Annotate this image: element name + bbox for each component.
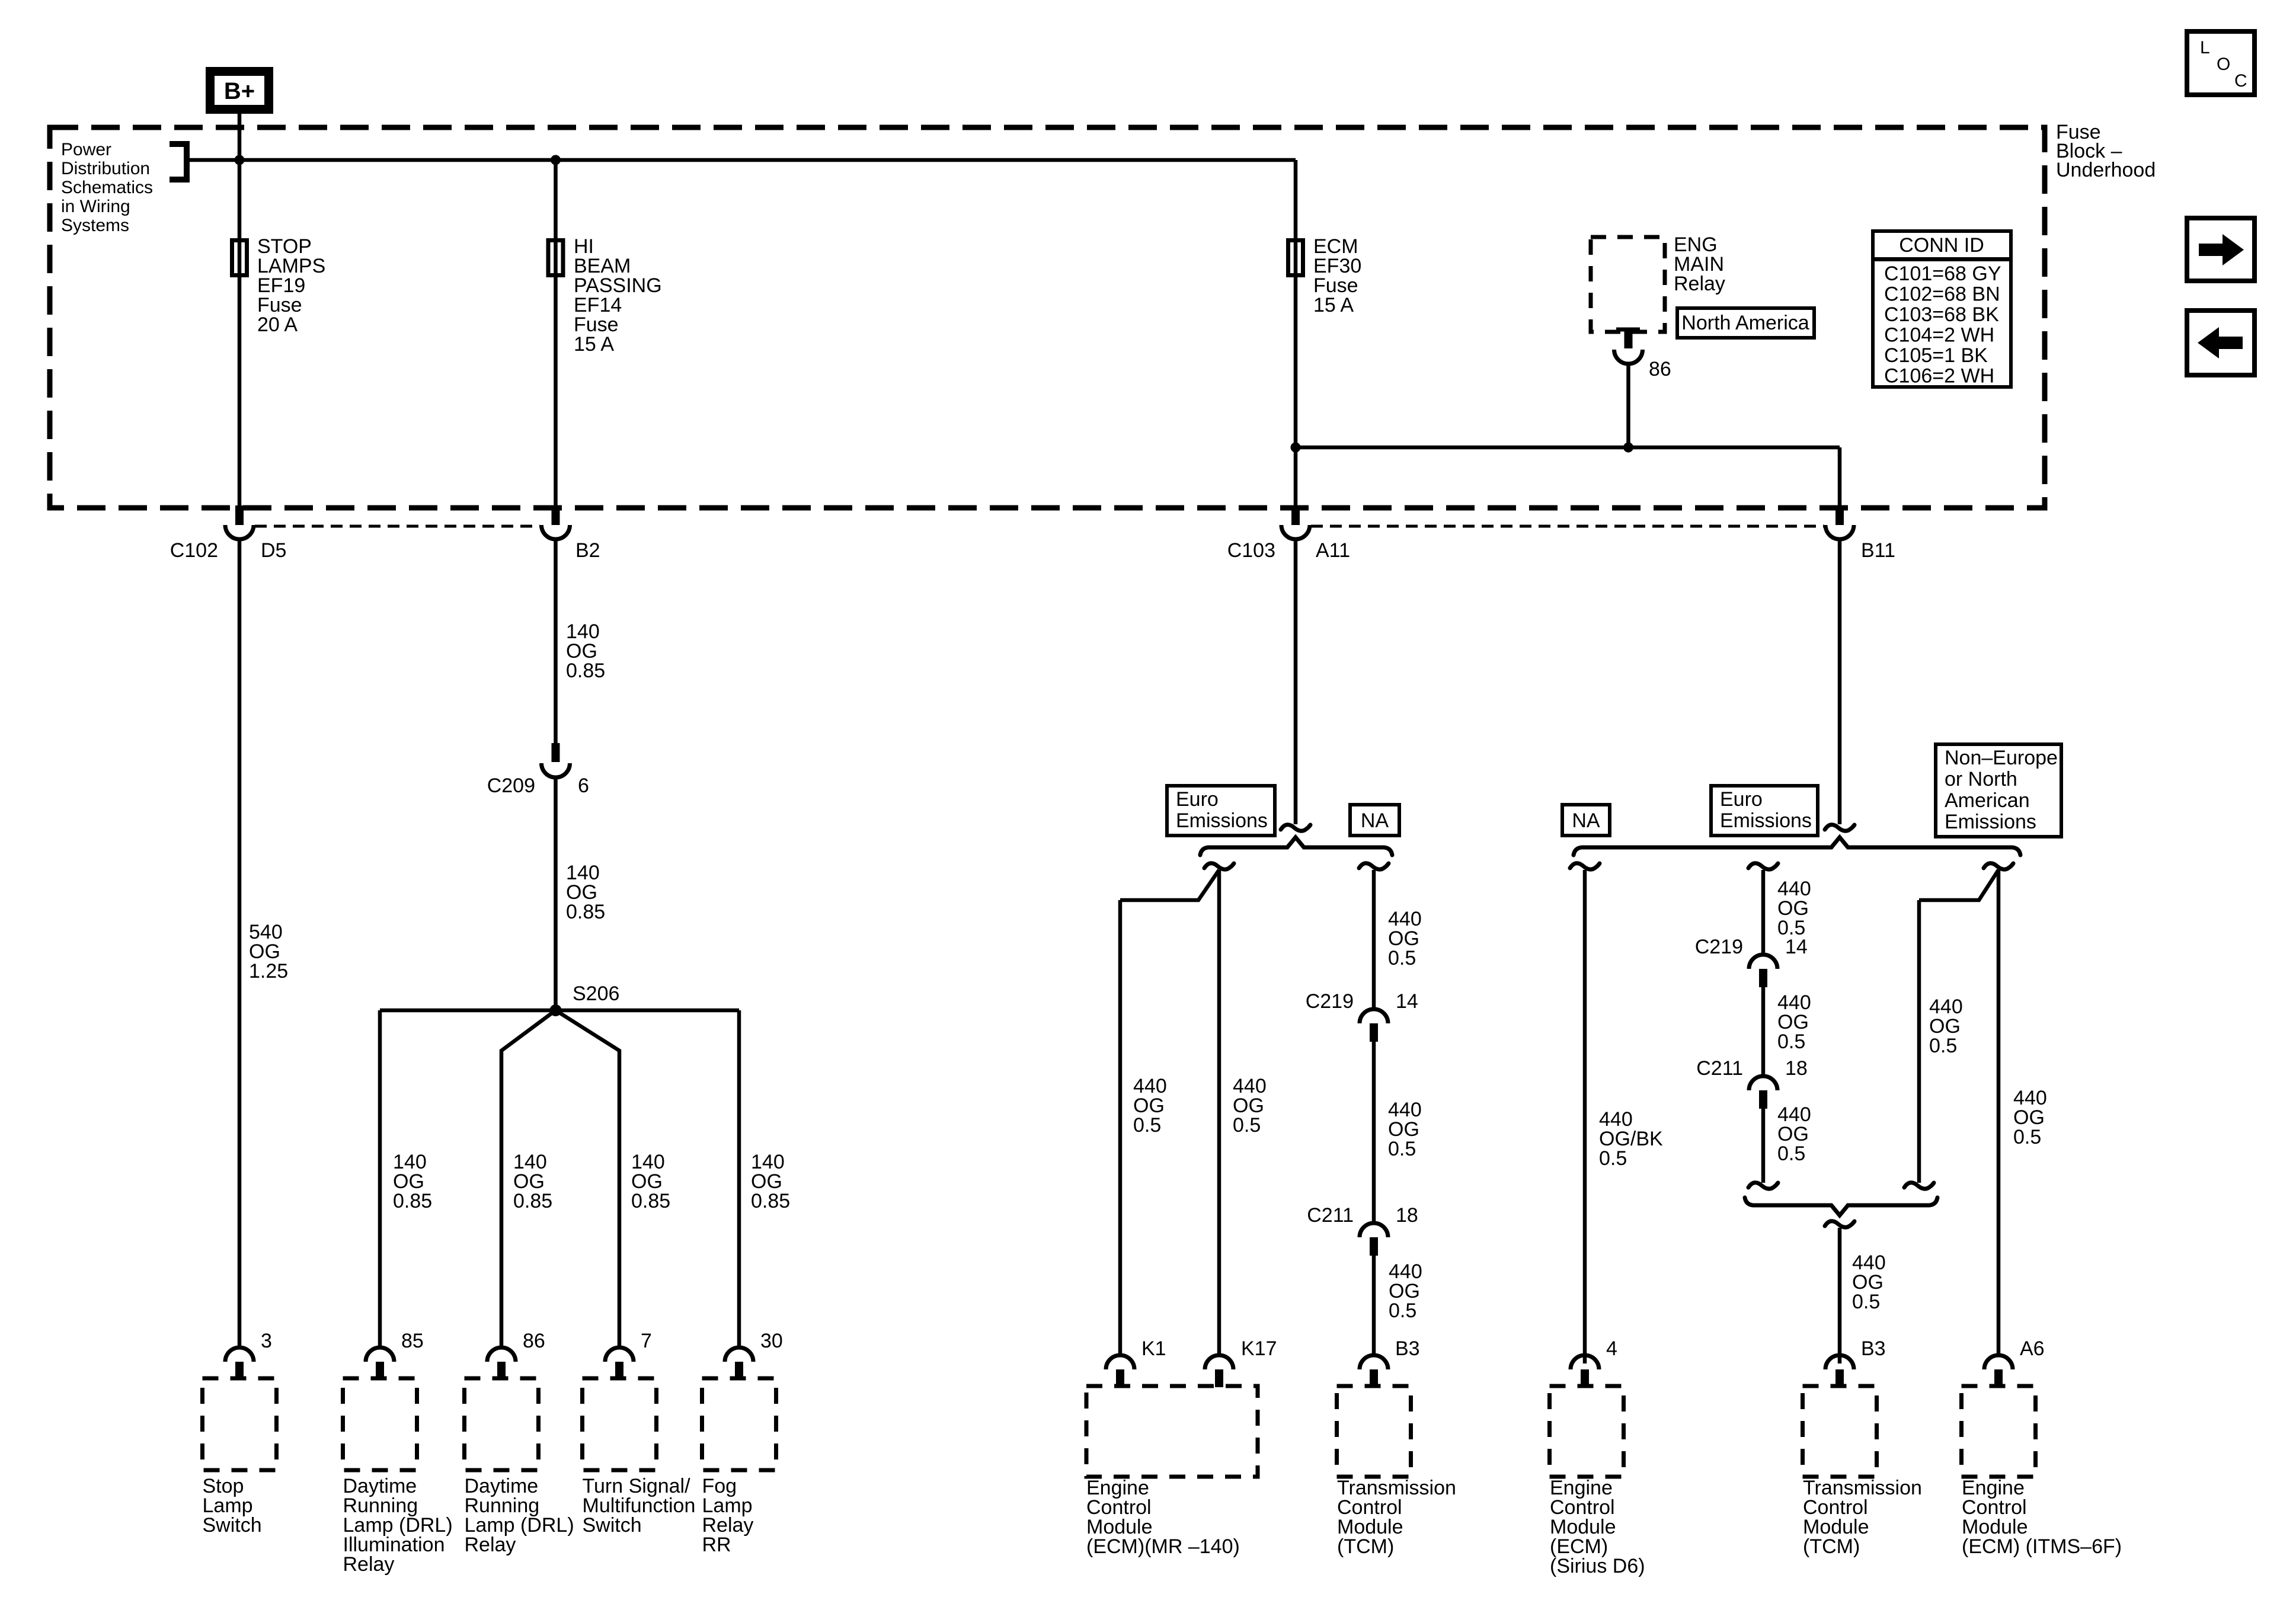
- connector pin 4 at ECM Sirius: [1571, 1355, 1599, 1387]
- label ECM MR-140: [1086, 1477, 1240, 1558]
- connector C219 pin 14 left: [1360, 1009, 1388, 1042]
- svg-text:6: 6: [578, 774, 589, 797]
- brace grouping Euro/NA at A11: [1200, 837, 1392, 855]
- svg-text:0.85: 0.85: [566, 901, 605, 923]
- svg-text:NA: NA: [1361, 809, 1389, 832]
- fuse EF30 ECM 15A: [1288, 235, 1362, 316]
- svg-text:C209: C209: [487, 774, 535, 797]
- svg-text:1.25: 1.25: [249, 960, 288, 982]
- svg-text:C211: C211: [1696, 1057, 1743, 1080]
- svg-text:C103: C103: [1227, 539, 1275, 562]
- label wire 140 OG 0.85 branch 4: [751, 1151, 790, 1212]
- relay ENG MAIN dashed box: [1591, 237, 1665, 332]
- wire branch to turn signal switch: [556, 1010, 620, 1348]
- label wire 140 OG 0.85 upper: [566, 620, 605, 682]
- wire C211 right down: [1761, 1109, 1766, 1183]
- label C102 D5: [170, 539, 287, 562]
- label wire 140 OG 0.85 lower: [566, 862, 605, 923]
- label Fuse Block - Underhood: [2056, 121, 2156, 181]
- label box North America: [1677, 308, 1814, 338]
- wire C211 to TCM B3: [1372, 1256, 1376, 1356]
- svg-text:Switch: Switch: [583, 1514, 642, 1537]
- label C219 14: [1306, 990, 1418, 1013]
- svg-text:American: American: [1945, 789, 2030, 812]
- svg-text:0.5: 0.5: [1388, 947, 1416, 969]
- module box transmission control module TCM right: [1803, 1386, 1877, 1477]
- svg-text:Non–Europe: Non–Europe: [1945, 747, 2058, 769]
- label C219 14 right: [1695, 936, 1808, 958]
- wire K1 down: [1118, 900, 1123, 1356]
- svg-text:4: 4: [1606, 1337, 1617, 1360]
- module box engine control module ECM Sirius D6: [1550, 1386, 1624, 1477]
- svg-text:0.85: 0.85: [513, 1190, 552, 1212]
- connector pin 3 at stop lamp switch: [225, 1347, 254, 1379]
- svg-text:C219: C219: [1695, 936, 1743, 958]
- wire B11 branch down: [1838, 447, 1842, 507]
- label C211 18: [1307, 1204, 1418, 1227]
- label DRL relay: [465, 1475, 574, 1556]
- connector C211 pin 18 right: [1749, 1076, 1777, 1109]
- svg-text:18: 18: [1396, 1204, 1418, 1227]
- label TCM left: [1337, 1477, 1456, 1558]
- connector C102 pin D5: [225, 505, 254, 539]
- label turn signal multifunction switch: [583, 1475, 696, 1537]
- fuse EF19 STOP LAMPS 20A: [232, 235, 326, 336]
- label C209 6: [487, 774, 589, 797]
- module box stop lamp switch: [203, 1378, 277, 1470]
- label box Euro Emissions right: [1711, 786, 1818, 836]
- label ECM Sirius D6: [1550, 1477, 1645, 1577]
- svg-text:NA: NA: [1572, 809, 1600, 832]
- svg-text:0.5: 0.5: [1233, 1114, 1261, 1137]
- svg-text:C102=68 BN: C102=68 BN: [1884, 283, 2000, 306]
- svg-text:C219: C219: [1306, 990, 1354, 1013]
- splice S206: [550, 1004, 562, 1016]
- wire break Euro chain right: [1748, 863, 1778, 869]
- wire Euro chain to C219 right: [1761, 870, 1766, 956]
- svg-text:15 A: 15 A: [1313, 294, 1354, 316]
- svg-text:(TCM): (TCM): [1337, 1535, 1394, 1558]
- wire C219 to C211 left: [1372, 1042, 1376, 1224]
- svg-text:0.5: 0.5: [2013, 1126, 2041, 1148]
- svg-text:B2: B2: [575, 539, 600, 562]
- connector pin A6 at ECM ITMS-6F: [1984, 1355, 2013, 1387]
- wire break middle branch bottom: [1904, 1183, 1934, 1189]
- wire middle branch down: [1917, 900, 1921, 1183]
- label wire 440 OG 0.5 below C211 right: [1777, 1103, 1811, 1165]
- svg-text:Relay: Relay: [343, 1553, 395, 1576]
- label ENG MAIN Relay: [1674, 233, 1725, 295]
- wire break at B11 split: [1825, 825, 1854, 831]
- svg-text:14: 14: [1785, 936, 1808, 958]
- svg-text:3: 3: [261, 1330, 272, 1352]
- label C103 A11: [1227, 539, 1350, 562]
- power symbol B+: [210, 72, 269, 110]
- label Power Distribution Schematics in Wiring Systems: [61, 140, 153, 235]
- svg-text:14: 14: [1396, 990, 1418, 1013]
- label wire 440 OG 0.5 between C219 C211: [1388, 1099, 1422, 1160]
- svg-text:86: 86: [1649, 358, 1671, 380]
- wire break at A11 split: [1281, 825, 1310, 831]
- svg-text:Euro: Euro: [1720, 788, 1763, 811]
- module box engine control module ECM ITMS-6F: [1962, 1386, 2036, 1477]
- connector pin K1 at ECM MR-140: [1106, 1355, 1134, 1387]
- connector pin B3 at TCM right: [1825, 1355, 1854, 1387]
- connector pin 85 at DRL illumination relay: [366, 1347, 394, 1379]
- wire hi beam fuse branch: [554, 160, 558, 507]
- svg-text:(ECM)(MR –140): (ECM)(MR –140): [1086, 1535, 1240, 1558]
- wire Non-Europe diagonal branch: [1919, 870, 1998, 900]
- wire ECM feed horizontal to B11 branch: [1296, 446, 1840, 450]
- fuse EF14 HI BEAM PASSING 15A: [548, 235, 662, 356]
- wire Euro branch diagonal to K1: [1120, 870, 1219, 900]
- label wire 440 OG 0.5 above B3: [1389, 1260, 1422, 1322]
- wire Non-Europe to ECM ITMS pin A6: [1997, 870, 2001, 1356]
- svg-text:North America: North America: [1681, 312, 1809, 334]
- svg-text:Distribution: Distribution: [61, 159, 150, 178]
- wire branch to fog lamp relay: [737, 1010, 741, 1348]
- svg-text:(Sirius D6): (Sirius D6): [1550, 1555, 1645, 1577]
- label wire 440 OG 0.5 K1: [1133, 1075, 1167, 1137]
- svg-text:Systems: Systems: [61, 216, 129, 235]
- label stop lamp switch: [203, 1475, 262, 1537]
- svg-text:B3: B3: [1395, 1337, 1420, 1360]
- connector C103 pin B11: [1825, 505, 1854, 539]
- wire branch to DRL illumination relay: [378, 1010, 382, 1348]
- wire break below joining brace: [1825, 1221, 1854, 1227]
- module box engine control module ECM MR-140: [1086, 1386, 1258, 1477]
- connector pin 30 at fog lamp relay RR: [725, 1347, 753, 1379]
- svg-text:0.85: 0.85: [631, 1190, 670, 1212]
- label wire 440 OG/BK 0.5: [1599, 1108, 1663, 1170]
- node junction relay feed: [1623, 443, 1633, 453]
- svg-text:86: 86: [523, 1330, 545, 1352]
- wire main bus: [187, 158, 1296, 162]
- svg-text:0.85: 0.85: [393, 1190, 432, 1212]
- label box NA right: [1562, 805, 1610, 836]
- connector pin 7 at turn signal multifunction switch: [605, 1347, 634, 1379]
- svg-text:D5: D5: [261, 539, 286, 562]
- wire NA right to ECM Sirius pin 4: [1583, 870, 1587, 1363]
- label wire 140 OG 0.85 branch 3: [631, 1151, 670, 1212]
- svg-text:(TCM): (TCM): [1803, 1535, 1860, 1558]
- wire ECM fuse branch: [1294, 160, 1298, 507]
- svg-text:7: 7: [641, 1330, 652, 1352]
- label wire 440 OG 0.5 to TCM right: [1852, 1251, 1886, 1313]
- svg-text:K17: K17: [1241, 1337, 1277, 1360]
- svg-text:Emissions: Emissions: [1945, 811, 2036, 833]
- svg-text:A6: A6: [2020, 1337, 2045, 1360]
- wire break Euro chain bottom: [1748, 1183, 1778, 1189]
- svg-text:Schematics: Schematics: [61, 178, 153, 197]
- svg-text:O: O: [2217, 55, 2230, 74]
- module box fog lamp relay RR: [702, 1378, 776, 1470]
- wire 540 OG to stop lamp switch: [238, 539, 242, 1348]
- svg-text:0.5: 0.5: [1852, 1291, 1880, 1313]
- connector C103 pin A11: [1281, 505, 1310, 539]
- symbol arrow left box: [2187, 311, 2255, 375]
- svg-text:K1: K1: [1141, 1337, 1166, 1360]
- wire relay 86 down: [1626, 364, 1630, 447]
- wire stop lamps fuse branch: [238, 160, 242, 507]
- svg-text:RR: RR: [702, 1534, 731, 1556]
- connector C209 pin 6: [542, 743, 570, 777]
- svg-text:Euro: Euro: [1176, 788, 1219, 811]
- svg-text:B3: B3: [1861, 1337, 1886, 1360]
- label wire 540 OG 1.25: [249, 921, 288, 982]
- svg-text:85: 85: [401, 1330, 424, 1352]
- wire from B+ into fuse block: [238, 114, 242, 160]
- svg-text:20 A: 20 A: [257, 313, 298, 336]
- svg-text:0.5: 0.5: [1389, 1299, 1416, 1322]
- label C211 18 right: [1696, 1057, 1808, 1080]
- label box Euro Emissions left: [1167, 786, 1275, 836]
- svg-text:B+: B+: [224, 78, 255, 104]
- wire B11 to emissions split: [1838, 539, 1842, 824]
- label TCM right: [1803, 1477, 1922, 1558]
- svg-text:Relay: Relay: [465, 1534, 516, 1556]
- label fog lamp relay RR: [702, 1475, 754, 1556]
- node junction bus / stop lamps feed: [235, 155, 245, 165]
- label DRL illumination relay: [343, 1475, 453, 1576]
- label wire 440 OG 0.5 above C219 right: [1777, 878, 1811, 939]
- svg-text:30: 30: [760, 1330, 783, 1352]
- svg-text:L: L: [2200, 38, 2210, 57]
- svg-text:15 A: 15 A: [574, 333, 614, 356]
- svg-text:C103=68 BK: C103=68 BK: [1884, 303, 1999, 326]
- brace grouping NA/Euro/Non-Europe at B11: [1574, 837, 2020, 855]
- svg-text:(ECM) (ITMS–6F): (ECM) (ITMS–6F): [1962, 1535, 2122, 1558]
- svg-text:C105=1 BK: C105=1 BK: [1884, 344, 1988, 367]
- svg-text:0.5: 0.5: [1599, 1147, 1627, 1170]
- wire Euro branch to K17: [1217, 870, 1221, 1356]
- svg-text:0.5: 0.5: [1929, 1035, 1957, 1057]
- svg-text:Underhood: Underhood: [2056, 159, 2156, 181]
- wire to TCM B3 right: [1838, 1228, 1842, 1363]
- node junction ECM feed: [1291, 443, 1301, 453]
- bracket to power distribution label: [170, 144, 187, 180]
- svg-text:CONN ID: CONN ID: [1899, 234, 1984, 257]
- connector C102 pin B2: [542, 505, 570, 539]
- svg-text:S206: S206: [573, 982, 619, 1005]
- label wire 440 OG 0.5 above C219: [1388, 908, 1422, 969]
- svg-text:A11: A11: [1316, 539, 1350, 562]
- module box transmission control module TCM left: [1337, 1386, 1411, 1477]
- svg-text:C211: C211: [1307, 1204, 1354, 1227]
- relay pin 86 connector: [1614, 328, 1643, 364]
- label box NA left: [1350, 805, 1399, 836]
- wire S206 horizontal distribution: [380, 1009, 739, 1013]
- connector pin 86 at DRL relay: [487, 1347, 516, 1379]
- dotted connector line C103: [1311, 525, 1824, 528]
- label wire 140 OG 0.85 branch 1: [393, 1151, 432, 1212]
- svg-text:Relay: Relay: [1674, 273, 1725, 295]
- wire C219 to C211 right: [1761, 987, 1766, 1077]
- connector C219 pin 14 right: [1749, 955, 1777, 987]
- wire break Euro branch: [1204, 863, 1234, 869]
- svg-text:0.85: 0.85: [751, 1190, 790, 1212]
- wire 140 OG to splice S206: [554, 777, 558, 1010]
- svg-text:C104=2 WH: C104=2 WH: [1884, 324, 1994, 347]
- symbol LOC box: [2187, 31, 2255, 95]
- connector C211 pin 18 left: [1360, 1223, 1388, 1256]
- svg-text:Switch: Switch: [203, 1514, 262, 1537]
- fuse block - underhood dashed box: [50, 127, 2045, 508]
- wire 140 OG to C209: [554, 539, 558, 743]
- svg-text:or North: or North: [1945, 768, 2017, 790]
- wire break Non-Europe branch: [1984, 863, 2013, 869]
- svg-text:0.5: 0.5: [1777, 1142, 1805, 1165]
- svg-text:C106=2 WH: C106=2 WH: [1884, 365, 1994, 388]
- label wire 440 OG 0.5 middle branch: [1929, 996, 1963, 1057]
- module box DRL relay: [465, 1378, 539, 1470]
- node junction bus / hi beam feed: [551, 155, 561, 165]
- svg-text:C101=68 GY: C101=68 GY: [1884, 263, 2001, 285]
- label box Non-Europe or North American Emissions: [1936, 744, 2061, 837]
- svg-text:0.5: 0.5: [1133, 1114, 1161, 1137]
- svg-text:Emissions: Emissions: [1720, 809, 1812, 832]
- wire NA branch to C219: [1372, 870, 1376, 1010]
- dotted connector line C102: [255, 525, 540, 528]
- wire A11 to emissions split: [1294, 539, 1298, 824]
- connector pin B3 at TCM left: [1360, 1355, 1388, 1387]
- module box DRL illumination relay: [343, 1378, 417, 1470]
- wire break NA branch left: [1359, 863, 1389, 869]
- module box turn signal multifunction switch: [583, 1378, 657, 1470]
- label wire 140 OG 0.85 branch 2: [513, 1151, 552, 1212]
- svg-text:B11: B11: [1861, 539, 1895, 562]
- svg-text:0.5: 0.5: [1388, 1138, 1416, 1160]
- wire break NA branch right: [1570, 863, 1600, 869]
- svg-text:0.85: 0.85: [566, 660, 605, 682]
- label ECM ITMS-6F: [1962, 1477, 2122, 1558]
- svg-text:C102: C102: [170, 539, 218, 562]
- brace joining Euro chain and middle branch: [1745, 1198, 1937, 1215]
- connector pin K17 at ECM MR-140: [1205, 1355, 1233, 1387]
- label wire 440 OG 0.5 A6 branch: [2013, 1087, 2047, 1148]
- svg-text:in Wiring: in Wiring: [61, 197, 130, 216]
- svg-text:18: 18: [1785, 1057, 1808, 1080]
- label wire 440 OG 0.5 K17: [1233, 1075, 1267, 1137]
- label wire 440 OG 0.5 between right: [1777, 991, 1811, 1053]
- svg-text:C: C: [2234, 71, 2247, 91]
- svg-text:Power: Power: [61, 140, 111, 159]
- symbol arrow right box: [2187, 218, 2255, 281]
- svg-text:Emissions: Emissions: [1176, 809, 1268, 832]
- svg-text:0.5: 0.5: [1777, 1030, 1805, 1053]
- table CONN ID: [1873, 231, 2011, 388]
- wire branch to DRL relay: [501, 1010, 556, 1348]
